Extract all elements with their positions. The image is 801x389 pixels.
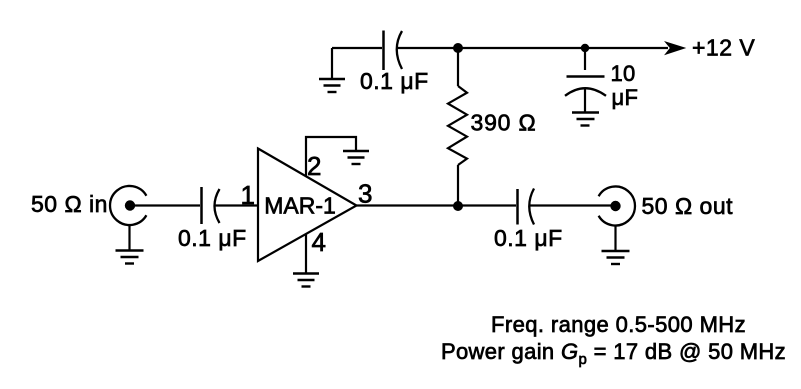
wire node C to C4 — [458, 204, 516, 206]
wire R1 to node C — [457, 165, 459, 206]
wire C1 to U1 pin 1 — [215, 204, 257, 206]
ground (top-left, C2) — [319, 48, 345, 92]
wire C2 to +12V arrow — [397, 47, 668, 49]
wire node B to C3 — [584, 48, 586, 70]
ground (pin 4) — [293, 274, 319, 287]
+12 V arrowhead — [666, 42, 685, 54]
svg-text:4: 4 — [312, 227, 326, 257]
svg-text:0.1 μF: 0.1 μF — [178, 225, 247, 251]
ground (output connector) — [602, 226, 630, 265]
svg-text:50 Ω out: 50 Ω out — [642, 193, 734, 219]
svg-text:390 Ω: 390 Ω — [471, 110, 537, 136]
ground (pin 2) — [343, 151, 369, 164]
svg-text:+12 V: +12 V — [692, 35, 755, 61]
svg-text:MAR-1: MAR-1 — [264, 193, 336, 219]
wire C4 to J2 — [530, 204, 613, 206]
wire U1 pin 3 to node C — [357, 204, 459, 206]
resistor R1 — [448, 86, 467, 165]
wire J1 to C1 — [133, 204, 200, 206]
wire pin 4 to ground — [305, 234, 307, 274]
node C junction — [453, 201, 463, 211]
wire pin 2 to ground — [306, 137, 356, 176]
connector J1 (50 ohm input) — [110, 186, 146, 225]
wire node A to R1 — [457, 48, 459, 86]
node A junction — [453, 43, 463, 53]
svg-text:3: 3 — [358, 179, 372, 209]
capacitor C2 0.1 uF (supply bypass) — [384, 31, 403, 71]
svg-text:Freq. range 0.5-500 MHz: Freq. range 0.5-500 MHz — [491, 312, 746, 337]
svg-text:Power gain Gp = 17 dB @ 50 MHz: Power gain Gp = 17 dB @ 50 MHz — [441, 339, 786, 368]
ground (input connector) — [116, 225, 144, 264]
capacitor C3 10 uF (electrolytic) — [565, 77, 606, 113]
svg-text:1: 1 — [241, 180, 255, 210]
amplifier U1 MAR-1 (triangle) — [258, 149, 357, 262]
svg-text:0.1 μF: 0.1 μF — [494, 225, 563, 251]
svg-text:0.1 μF: 0.1 μF — [360, 68, 429, 94]
capacitor C4 0.1 uF (output coupling) — [518, 189, 535, 225]
node B junction — [581, 44, 589, 52]
svg-text:50 Ω in: 50 Ω in — [31, 191, 108, 217]
svg-text:μF: μF — [612, 85, 639, 110]
ground (C3) — [572, 113, 599, 126]
wire ground to C2 — [332, 47, 382, 49]
svg-text:10: 10 — [611, 61, 636, 86]
svg-text:2: 2 — [307, 151, 321, 181]
capacitor C1 0.1 uF (input coupling) — [202, 187, 220, 224]
connector J2 (50 ohm output) — [599, 186, 635, 225]
